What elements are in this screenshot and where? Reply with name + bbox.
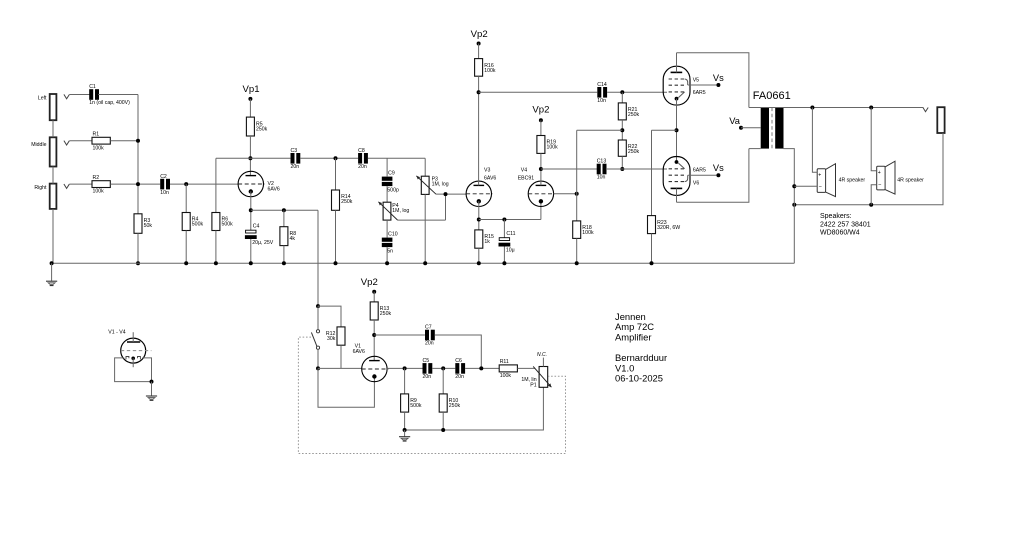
svg-text:1M, log: 1M, log	[432, 182, 449, 188]
wire R21 to R22	[621, 120, 623, 140]
node Vs dot upper	[716, 83, 720, 87]
wire V1 grid row right	[387, 367, 422, 369]
svg-text:4R speaker: 4R speaker	[897, 178, 924, 184]
wire tremolo feed down	[317, 210, 319, 306]
svg-text:C5: C5	[423, 358, 430, 364]
potentiometer P4	[383, 202, 409, 220]
wire C9 to P4	[386, 186, 388, 202]
svg-text:N.C.: N.C.	[537, 352, 547, 358]
resistor R13	[370, 302, 391, 320]
resistor R19	[537, 136, 558, 154]
junction speaker rail	[792, 203, 796, 207]
junction V1 grid node	[316, 366, 320, 370]
potentiometer P4 wiper arrow	[378, 202, 397, 220]
node Va dot	[739, 126, 743, 130]
speaker 2	[877, 161, 895, 194]
svg-text:C14: C14	[597, 82, 607, 88]
tremolo enclosure dashed outline	[298, 337, 565, 453]
svg-text:Vp1: Vp1	[242, 84, 259, 95]
capacitor C7	[425, 325, 435, 347]
svg-text:250k: 250k	[628, 149, 640, 155]
svg-text:C13: C13	[597, 159, 607, 165]
svg-text:WD8060/W4: WD8060/W4	[820, 229, 860, 236]
resistor R16	[475, 59, 496, 77]
tube V6 6AR5	[663, 157, 690, 196]
capacitor C14	[597, 82, 607, 104]
junction R14 top node	[334, 156, 338, 160]
wire Vp2 to R16	[478, 44, 480, 59]
svg-text:1M, log: 1M, log	[392, 208, 409, 214]
wire plate to C7	[374, 334, 425, 336]
transformer FA0661 core	[771, 108, 773, 149]
svg-text:500k: 500k	[192, 222, 204, 228]
capacitor C10	[382, 232, 398, 255]
wire V3 plate column	[478, 92, 480, 185]
wire R10 to tremolo rail	[442, 412, 444, 430]
junction V6 grid node	[620, 167, 624, 171]
wire V4 plate to C13	[541, 168, 597, 170]
input contact Middle	[64, 141, 69, 145]
svg-text:C3: C3	[291, 148, 298, 154]
wire V6 plate lead	[676, 188, 678, 202]
junction feedback node	[575, 192, 579, 196]
svg-text:100k: 100k	[500, 373, 512, 379]
wire speaker1 minus lead	[794, 185, 817, 187]
wire cathode column	[676, 99, 678, 162]
wire to R21	[621, 92, 623, 103]
wire R23 to ground rail	[651, 234, 653, 264]
transformer FA0661 secondary winding	[775, 108, 783, 149]
title block text	[615, 311, 667, 384]
junction R18 ground	[575, 261, 579, 265]
capacitor C11 (electrolytic)	[499, 231, 516, 253]
wire Right row to R2	[69, 183, 92, 185]
junction V2 cathode node	[249, 208, 253, 212]
wire plate node to C14	[479, 91, 598, 93]
resistor R12	[326, 327, 345, 345]
tube V1-V4 heater diagram	[121, 332, 152, 367]
svg-text:250k: 250k	[256, 126, 268, 132]
svg-text:R2: R2	[93, 175, 100, 181]
resistor R11	[499, 359, 517, 379]
junction V2 grid node	[184, 182, 188, 186]
svg-text:20n: 20n	[423, 374, 432, 380]
wire R14 to ground rail	[335, 210, 337, 263]
svg-text:10μ: 10μ	[506, 247, 515, 253]
wire V1 cathode loop	[318, 368, 374, 407]
wire output jack return / speaker bottom rail	[794, 133, 943, 205]
svg-text:C1: C1	[89, 84, 96, 90]
resistor R4	[182, 213, 203, 231]
wire wiper riser	[445, 194, 447, 220]
junction R4 ground	[184, 261, 188, 265]
wire primary bottom	[749, 148, 761, 150]
wire R5 to V2 plate	[249, 136, 251, 176]
wire to R10	[442, 368, 444, 394]
wire V5 plate to transformer	[677, 53, 749, 108]
svg-text:Vp2: Vp2	[471, 29, 488, 40]
junction R10 C6 node	[441, 366, 445, 370]
wire to R12	[318, 306, 341, 327]
wire P4 to C10	[386, 220, 388, 238]
junction V3 grid node	[444, 192, 448, 196]
wire V6 plate to transformer	[677, 149, 749, 203]
capacitor C2	[160, 174, 170, 196]
junction R8 ground	[282, 261, 286, 265]
node Vp2 dot 2	[539, 118, 543, 122]
svg-text:C10: C10	[388, 232, 398, 238]
wire Vp1 to R5	[249, 99, 251, 117]
wire C1 to mix column	[98, 94, 138, 96]
junction R14 ground	[334, 261, 338, 265]
wire heater ground stem	[151, 382, 153, 396]
wire plate node to R6	[215, 158, 217, 212]
wire R22 to C13 row	[621, 156, 623, 169]
wire jack link 1	[52, 120, 54, 137]
wire secondary top rail	[749, 107, 923, 109]
wire cathode row	[479, 219, 541, 221]
wire to R14	[335, 158, 337, 190]
svg-text:Vs: Vs	[713, 73, 724, 83]
svg-text:C11: C11	[506, 231, 515, 237]
wire ground stem tremolo	[404, 430, 406, 437]
wire to C9	[386, 158, 388, 176]
ground input section	[46, 281, 57, 285]
svg-text:C2: C2	[160, 174, 167, 180]
wire Vp2 to R13	[373, 292, 375, 302]
wire V3 cathode	[478, 201, 480, 230]
svg-text:Vp2: Vp2	[361, 277, 378, 288]
svg-text:6AR5: 6AR5	[693, 90, 706, 96]
wire grid node to R4	[185, 184, 187, 212]
resistor R15	[475, 230, 494, 248]
wire R2 to C2	[110, 183, 160, 185]
resistor R2	[92, 175, 110, 195]
svg-text:20n: 20n	[291, 164, 300, 170]
tube V4 EBC91	[528, 181, 555, 206]
svg-text:FA0661: FA0661	[753, 90, 791, 102]
svg-text:2422 257 38401: 2422 257 38401	[820, 221, 871, 228]
svg-text:EBC91: EBC91	[518, 175, 535, 181]
wire C10 to ground rail	[386, 247, 388, 263]
potentiometer P1	[521, 367, 547, 389]
capacitor C6	[455, 358, 465, 380]
wire cathode node to tremolo feed	[251, 209, 318, 211]
svg-text:20μ, 25V: 20μ, 25V	[252, 240, 273, 246]
junction R1 mix node	[136, 139, 140, 143]
wire speaker2 minus lead	[871, 185, 877, 205]
wire R12 to grid row	[340, 345, 342, 368]
wire R1 to mix column	[110, 140, 138, 142]
wire tone node	[368, 157, 425, 159]
resistor R22	[618, 140, 639, 156]
wire to V3 grid	[436, 193, 466, 195]
wire C7 feedback	[435, 335, 482, 368]
junction switch top node	[316, 304, 320, 308]
wire R18 to ground rail	[576, 238, 578, 263]
wire C14 to V5 grid	[607, 91, 667, 93]
svg-text:50k: 50k	[144, 223, 153, 229]
junction V1 plate node	[372, 333, 376, 337]
resistor R3	[134, 214, 152, 234]
resistor R8	[280, 227, 296, 246]
svg-text:100k: 100k	[484, 68, 496, 74]
wire Left row to C1	[69, 94, 90, 96]
wire C4 to ground rail	[250, 239, 252, 263]
svg-text:Left: Left	[38, 95, 47, 101]
wire R16 to plate node	[478, 76, 480, 92]
svg-text:10n: 10n	[597, 175, 606, 181]
junction C4 ground	[249, 261, 253, 265]
tube V1 6AV6	[362, 356, 389, 381]
wire P3 bottom to ground rail	[424, 194, 426, 263]
wire V2 cathode	[250, 191, 252, 230]
wire divider to feedback column	[577, 129, 623, 131]
ground tremolo section	[399, 437, 410, 441]
svg-text:500k: 500k	[222, 222, 234, 228]
svg-text:V6: V6	[693, 180, 699, 186]
junction speaker2 plus	[869, 106, 873, 110]
wire switch to lower node	[317, 349, 319, 368]
svg-text:Speakers:: Speakers:	[820, 213, 852, 220]
potentiometer P3	[421, 176, 448, 194]
junction R8 top	[282, 208, 286, 212]
node Vp2 dot	[477, 42, 481, 46]
svg-text:5n: 5n	[387, 248, 393, 254]
node Vp1 dot	[248, 97, 252, 101]
svg-text:1k: 1k	[484, 239, 490, 245]
wire speaker1 plus lead	[812, 108, 817, 173]
svg-text:V5: V5	[693, 78, 699, 84]
ground heater	[146, 396, 157, 400]
svg-text:Va: Va	[729, 116, 741, 126]
junction R6 ground	[214, 261, 218, 265]
svg-text:250k: 250k	[449, 403, 461, 409]
svg-text:10n: 10n	[597, 98, 606, 104]
wire P1 to N.C.	[542, 358, 544, 367]
input contact Left	[64, 94, 69, 98]
wire speaker2 plus lead	[871, 108, 877, 171]
wire R13 to V1 plate	[373, 320, 375, 361]
junction C11 ground	[502, 261, 506, 265]
input jack Right	[50, 184, 57, 209]
wire V4 cathode	[540, 201, 542, 219]
wire to V1 grid	[318, 367, 362, 369]
svg-text:30k: 30k	[327, 336, 336, 342]
svg-text:250k: 250k	[628, 112, 640, 118]
wire Va to primary tap	[741, 127, 761, 129]
junction heater ground	[150, 380, 154, 384]
wire to switch contact	[317, 306, 319, 330]
svg-text:Middle: Middle	[31, 142, 46, 148]
potentiometer P3 wiper arrow	[416, 176, 436, 194]
junction V2 plate node	[248, 156, 252, 160]
wire jack link 2	[52, 167, 54, 184]
svg-text:V3: V3	[484, 168, 490, 174]
junction R15 ground	[477, 261, 481, 265]
wire jack to ground rail	[52, 209, 54, 263]
wire R4 to ground rail	[185, 231, 187, 264]
capacitor C1	[89, 84, 130, 106]
svg-text:6AR5: 6AR5	[693, 168, 706, 174]
svg-text:100k: 100k	[93, 189, 105, 195]
resistor R6	[212, 213, 233, 231]
svg-text:20n: 20n	[455, 374, 464, 380]
junction R2 mix node	[136, 182, 140, 186]
output jack	[937, 107, 944, 133]
tube V2 6AV6	[238, 171, 265, 196]
capacitor C5	[423, 358, 433, 380]
speaker 1	[817, 164, 835, 197]
capacitor C3	[291, 148, 301, 170]
junction V4 plate node	[539, 167, 543, 171]
wire V5 plate lead	[676, 53, 678, 73]
junction speaker1 minus	[792, 184, 796, 188]
wire tremolo ground rail	[405, 387, 544, 430]
resistor R10	[439, 394, 460, 412]
tube V3 6AV6	[466, 181, 493, 206]
junction speaker2 minus	[869, 203, 873, 207]
svg-text:−: −	[819, 184, 822, 190]
input contact Right	[64, 184, 69, 188]
wire cathode to R23	[652, 129, 677, 131]
wire tone node to P3	[424, 158, 426, 176]
wire ground stem	[51, 263, 53, 281]
wire R15 to ground rail	[478, 248, 480, 263]
svg-text:10n: 10n	[160, 190, 169, 196]
svg-text:Vs: Vs	[713, 163, 724, 173]
junction R10 ground node	[441, 428, 445, 432]
wire plate node left	[216, 157, 251, 159]
input jack Left	[50, 94, 57, 120]
wire Middle row to R1	[69, 140, 92, 142]
svg-text:V4: V4	[521, 168, 527, 174]
wire C2 to V2 grid	[170, 183, 238, 185]
svg-text:100k: 100k	[93, 145, 105, 151]
wire V4 to feedback column	[554, 193, 577, 195]
switch tremolo on/off	[311, 330, 319, 350]
wire secondary bottom to ground rail	[784, 149, 795, 264]
wire C5 to C6	[432, 367, 455, 369]
resistor R18	[573, 221, 594, 239]
wire R6 to ground rail	[215, 231, 217, 264]
wire R9 to tremolo rail	[404, 412, 406, 430]
svg-text:C8: C8	[358, 148, 365, 154]
svg-text:C9: C9	[388, 171, 395, 177]
junction R3 ground	[136, 261, 140, 265]
wire C11 to ground rail	[503, 247, 505, 264]
wire heater loop	[115, 358, 152, 382]
junction cathode node	[675, 128, 679, 132]
svg-text:500k: 500k	[410, 403, 422, 409]
wire to C11	[503, 220, 505, 238]
resistor R14	[332, 190, 353, 210]
svg-text:250k: 250k	[341, 199, 353, 205]
svg-text:C4: C4	[253, 223, 260, 229]
wire R3 to ground rail	[137, 233, 139, 263]
wire C13 to V6 grid	[606, 168, 667, 170]
svg-text:4k: 4k	[290, 236, 296, 242]
svg-text:500p: 500p	[387, 187, 399, 193]
wire R23 column	[651, 130, 653, 215]
svg-text:6AV6: 6AV6	[353, 349, 365, 355]
capacitor C9	[382, 171, 399, 194]
wire to R8	[283, 210, 285, 226]
svg-text:+: +	[818, 173, 821, 179]
svg-text:V1 - V4: V1 - V4	[108, 329, 125, 335]
resistor R23	[648, 216, 681, 234]
wire mix column	[137, 95, 139, 214]
svg-text:C6: C6	[455, 358, 462, 364]
junction R21 R22 node	[620, 128, 624, 132]
junction C7 node	[479, 366, 483, 370]
capacitor C8	[358, 148, 368, 170]
output contact	[923, 107, 928, 111]
svg-text:250k: 250k	[380, 311, 392, 317]
wire Vp2 to R19	[540, 120, 542, 135]
wire feedback column	[576, 130, 578, 221]
svg-text:4R speaker: 4R speaker	[839, 177, 866, 183]
wire R11 to P1	[517, 367, 535, 369]
resistor R1	[92, 131, 110, 151]
junction input ground	[50, 261, 54, 265]
svg-text:+: +	[878, 170, 881, 176]
svg-text:20n: 20n	[358, 164, 367, 170]
junction C11 top	[502, 218, 506, 222]
transformer FA0661 primary winding	[761, 108, 769, 149]
junction V3 plate node	[477, 90, 481, 94]
svg-text:Vp2: Vp2	[532, 105, 549, 116]
capacitor C4 (electrolytic)	[245, 223, 274, 245]
wire main ground rail	[52, 262, 795, 264]
potentiometer P1 wiper arrow	[533, 366, 551, 387]
capacitor C13	[597, 159, 607, 181]
junction V3 cathode node	[477, 218, 481, 222]
wire V5 screen to Vs	[688, 84, 717, 86]
junction R9 C5 node	[403, 366, 407, 370]
junction speaker1 plus	[810, 106, 814, 110]
svg-text:06-10-2025: 06-10-2025	[615, 373, 663, 384]
resistor R5	[246, 117, 267, 136]
junction C10 ground	[385, 261, 389, 265]
node Vp2 dot 3	[372, 290, 376, 294]
svg-text:R11: R11	[500, 359, 509, 365]
junction P3 ground	[423, 261, 427, 265]
svg-text:20n: 20n	[425, 341, 434, 347]
input jack Middle	[50, 137, 57, 166]
node Vs dot lower	[716, 173, 720, 177]
wire P4 wiper row	[398, 219, 446, 221]
svg-text:Right: Right	[34, 185, 47, 191]
svg-text:P1: P1	[530, 382, 536, 388]
svg-text:6AV6: 6AV6	[268, 187, 280, 193]
svg-text:R1: R1	[93, 131, 100, 137]
resistor R21	[618, 103, 639, 120]
svg-text:320R, 6W: 320R, 6W	[657, 225, 680, 231]
wire to R9	[404, 368, 406, 394]
svg-text:C7: C7	[425, 325, 432, 331]
svg-text:100k: 100k	[582, 230, 594, 236]
wire plate node to C3	[250, 157, 290, 159]
svg-text:Amplifier: Amplifier	[615, 332, 651, 343]
svg-text:6AV6: 6AV6	[484, 175, 496, 181]
wire C3 to C8	[300, 157, 358, 159]
wire V6 screen to Vs	[688, 174, 717, 176]
resistor R9	[401, 394, 422, 412]
junction V5 grid node	[620, 90, 624, 94]
junction R23 ground	[650, 261, 654, 265]
wire C6 to R11	[465, 367, 499, 369]
